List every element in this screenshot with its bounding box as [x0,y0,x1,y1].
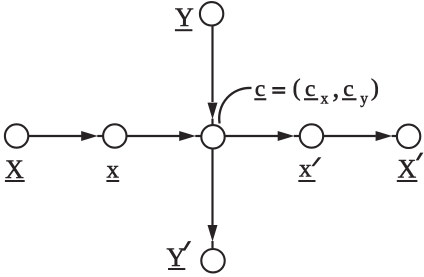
wire: horizontal segment N1 to N2 [29,135,82,137]
wire: vertical segment node c down [211,149,213,225]
svg-text:x: x [107,156,120,183]
svg-text:x: x [299,156,312,183]
wire: tip to node x' [294,135,300,137]
wire: horizontal segment N3 to N4 [225,135,278,137]
node x' [300,124,323,147]
wire: tip to node Y' top [211,241,213,249]
node X' (right) [397,125,420,148]
wire: vertical segment Y node down [211,26,213,102]
arrowhead into node x [81,131,98,141]
arrowhead into node c [179,131,196,141]
svg-text:c: c [305,76,315,102]
svg-text:Y: Y [175,3,194,32]
svg-text:x: x [321,91,329,108]
curved pointer arrow from label c to node c [219,88,251,123]
svg-text:(: ( [293,75,301,101]
svg-text:y: y [360,91,368,108]
prime of x' [311,157,321,166]
wire: horizontal segment N4 to N5 [324,135,376,137]
arrowhead into node x' [278,131,295,141]
svg-text:): ) [371,75,379,101]
wire: tip to node x [97,135,103,137]
svg-text:,: , [332,73,339,104]
svg-text:c: c [255,76,265,102]
node Y (top) [200,2,223,25]
wire: horizontal segment N2 to N3 [127,135,180,137]
node Y' (bottom) [201,249,224,272]
svg-text:X: X [398,155,417,184]
node x [103,124,126,147]
svg-text:c: c [343,76,353,102]
svg-text:X: X [5,155,24,184]
node c (center) [201,125,224,148]
arrowhead into node Y' [208,225,218,242]
wire: tip to node X' [392,135,397,137]
svg-text:Y: Y [167,243,186,272]
wire: tip to node c top [211,119,213,125]
wire: tip to node c [195,135,201,137]
arrowhead into node X' [376,131,393,141]
prime of Y' [182,241,191,251]
prime of X' [416,153,424,161]
node X (left) [5,124,28,147]
arrowhead into node c from top [208,103,218,120]
